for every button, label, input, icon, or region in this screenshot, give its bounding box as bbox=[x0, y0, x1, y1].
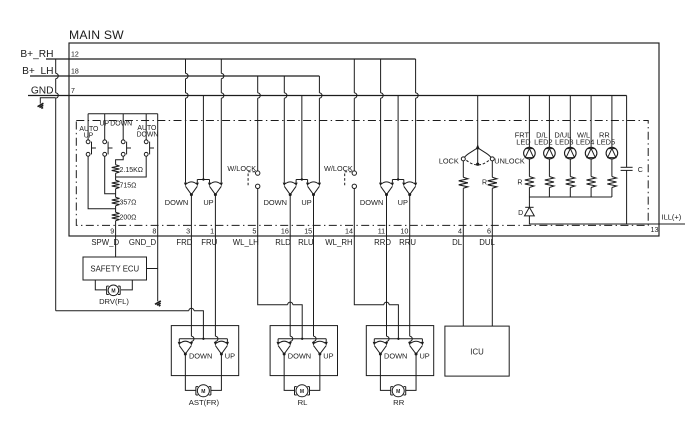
wire LED3 to bus bbox=[569, 188, 571, 198]
wire DL to ICU bbox=[462, 236, 464, 326]
diode D bbox=[525, 206, 533, 208]
main switch box outline bbox=[69, 43, 659, 236]
wire RR motor right bbox=[406, 354, 416, 390]
wire RR feed bar bbox=[374, 338, 422, 340]
wire RR down-input bbox=[387, 236, 390, 342]
rotary switch LOCK/UNLOCK bbox=[476, 144, 480, 149]
svg-text:WL_LH: WL_LH bbox=[233, 238, 259, 247]
svg-text:3: 3 bbox=[186, 226, 190, 235]
wire R1-R2 bbox=[115, 173, 117, 180]
wire AST(FR) up-input bbox=[215, 236, 218, 342]
wire RL outer-right feed bbox=[319, 76, 322, 183]
wire LED1 from GND bbox=[528, 96, 530, 148]
wire lock pivot from GND bbox=[477, 96, 479, 147]
wire S2 to R2/R3 junction bbox=[105, 156, 116, 194]
svg-text:RLD: RLD bbox=[275, 238, 291, 247]
motor RR bbox=[392, 385, 404, 397]
wire LED2 to bus bbox=[548, 188, 550, 198]
LED LED5 bbox=[606, 147, 618, 159]
svg-text:MAIN SW: MAIN SW bbox=[69, 28, 124, 42]
resistor 715 bbox=[112, 180, 120, 188]
wire LED2 to resistor bbox=[548, 159, 550, 177]
resistor 200 bbox=[112, 212, 120, 220]
driver unit right edge / GND_D wire (pin 8) bbox=[157, 114, 159, 236]
svg-text:RL: RL bbox=[298, 398, 309, 407]
resistor 2.15K bbox=[112, 165, 120, 173]
svg-text:8: 8 bbox=[152, 226, 156, 235]
driver UP contact RR bbox=[408, 342, 411, 346]
motor DRV(FL) bbox=[108, 285, 119, 296]
switch WL_RH W/LOCK contacts bbox=[352, 171, 356, 175]
wire WL_RH to RR block bbox=[354, 236, 398, 339]
svg-text:10: 10 bbox=[400, 226, 408, 235]
svg-text:DL: DL bbox=[452, 238, 463, 247]
svg-text:ILL(+): ILL(+) bbox=[662, 213, 682, 222]
wire AST(FR) feed bar bbox=[179, 338, 227, 340]
svg-text:D: D bbox=[518, 210, 523, 217]
svg-text:M: M bbox=[111, 288, 115, 294]
switch S2 UP wire from bus bbox=[104, 114, 106, 140]
wire S1 to R3/R4 junction bbox=[88, 156, 116, 209]
wire RL outer-left feed bbox=[284, 76, 287, 183]
driver DOWN contact RR bbox=[373, 342, 376, 346]
svg-text:DOWN: DOWN bbox=[264, 198, 287, 207]
wire FR outer-left feed bbox=[186, 59, 189, 183]
icu box bbox=[445, 326, 509, 376]
wire LED3 from GND bbox=[569, 96, 571, 148]
wire RLD output bbox=[289, 195, 291, 236]
switch WL_LH actuator dashes bbox=[248, 172, 255, 186]
wire WL_LH from bus bbox=[258, 76, 261, 171]
LED LED4 bbox=[585, 147, 597, 159]
wire ECU to GND_D bbox=[147, 268, 158, 270]
wire DUL upper bbox=[491, 161, 493, 177]
wire LED3 to resistor bbox=[569, 159, 571, 177]
wire FRD output bbox=[190, 195, 192, 236]
resistor LED5 bbox=[607, 177, 616, 188]
wire capacitor to ILL bbox=[626, 170, 628, 224]
svg-text:13: 13 bbox=[651, 225, 659, 234]
motor AST(FR) bbox=[197, 385, 209, 397]
svg-text:UP: UP bbox=[419, 351, 429, 360]
wire LED1 to resistor bbox=[528, 159, 530, 177]
wire RR outer-right feed bbox=[416, 59, 419, 183]
AST(FR) block box bbox=[171, 326, 238, 376]
wire SPW_D to SAFETY ECU bbox=[115, 236, 117, 257]
wire R2-R3 bbox=[115, 189, 117, 198]
RL block box bbox=[270, 326, 337, 376]
driver UP contact RL bbox=[312, 342, 315, 346]
wire ground branch bbox=[40, 98, 55, 104]
LED LED2 bbox=[544, 147, 556, 159]
wire S3 to ladder top bbox=[116, 156, 124, 165]
svg-text:DOWN: DOWN bbox=[165, 198, 188, 207]
wire DL to pin 4 bbox=[462, 188, 464, 236]
svg-text:LED: LED bbox=[516, 138, 530, 147]
wire left rail from B+_RH down bbox=[56, 59, 59, 311]
svg-text:UP: UP bbox=[301, 198, 311, 207]
LED LED bbox=[524, 147, 536, 159]
wire LED cathode bus bbox=[529, 196, 612, 198]
wire WL_RH from bus bbox=[354, 59, 357, 171]
resistor 357 bbox=[112, 197, 120, 205]
wire B+_RH bus (pin 12) bbox=[46, 58, 416, 60]
svg-text:DOWN: DOWN bbox=[110, 121, 132, 128]
svg-text:RR: RR bbox=[393, 398, 405, 407]
svg-text:RLU: RLU bbox=[298, 238, 314, 247]
svg-text:LED5: LED5 bbox=[597, 138, 616, 147]
switch WL_LH W/LOCK contacts bbox=[256, 171, 260, 175]
switch S1 AUTO UP wire from bus bbox=[87, 114, 89, 140]
svg-text:C: C bbox=[638, 167, 643, 174]
svg-text:FRD: FRD bbox=[176, 238, 192, 247]
resistor DUL R bbox=[488, 177, 497, 188]
resistor LED2 bbox=[545, 177, 554, 188]
wire RR outer-left feed bbox=[381, 59, 384, 183]
svg-text:DOWN: DOWN bbox=[360, 198, 383, 207]
wire RL motor left bbox=[284, 354, 294, 390]
LED LED3 bbox=[565, 147, 577, 159]
wire RL down-input bbox=[290, 236, 293, 342]
wire FRU output bbox=[214, 195, 216, 236]
driver DOWN contact RL bbox=[283, 183, 286, 187]
svg-text:GND: GND bbox=[31, 86, 54, 97]
RR block box bbox=[366, 326, 433, 376]
svg-text:UP: UP bbox=[323, 351, 333, 360]
wire WL_RH to pin bbox=[353, 189, 355, 237]
svg-text:357Ω: 357Ω bbox=[120, 199, 137, 206]
svg-text:LED4: LED4 bbox=[576, 138, 595, 147]
svg-text:7: 7 bbox=[71, 88, 75, 95]
svg-text:GND_D: GND_D bbox=[129, 238, 157, 247]
wire LED5 to resistor bbox=[611, 159, 613, 177]
svg-text:DOWN: DOWN bbox=[288, 351, 311, 360]
wire LED4 from GND bbox=[590, 96, 592, 148]
svg-text:715Ω: 715Ω bbox=[120, 183, 137, 190]
driver unit top bus bbox=[88, 113, 158, 115]
driver DOWN contact FR bbox=[184, 183, 187, 187]
driver DOWN contact AST(FR) bbox=[178, 342, 181, 346]
svg-text:M: M bbox=[201, 389, 205, 395]
wire SPW_D (pin 9) bbox=[115, 221, 117, 236]
svg-text:W/LOCK: W/LOCK bbox=[324, 164, 353, 173]
svg-text:12: 12 bbox=[71, 52, 79, 59]
safety ecu box bbox=[83, 257, 147, 280]
switch S4 AUTO DOWN contacts bbox=[144, 140, 148, 144]
svg-text:DOWN: DOWN bbox=[189, 351, 212, 360]
driver DOWN contact RL bbox=[277, 342, 280, 346]
switch S1 AUTO UP contacts bbox=[86, 140, 90, 144]
svg-text:16: 16 bbox=[281, 226, 289, 235]
wire GND_D down bbox=[157, 236, 159, 301]
wire RR up-input bbox=[410, 236, 413, 342]
motor RL bbox=[296, 385, 308, 397]
wire RLU output bbox=[313, 195, 315, 236]
wire LED5 to bus bbox=[611, 188, 613, 198]
wire FR outer-right feed bbox=[221, 59, 224, 183]
wire DUL to ICU bbox=[491, 236, 493, 326]
resistor LED3 bbox=[566, 177, 575, 188]
svg-text:M: M bbox=[396, 389, 400, 395]
svg-text:UP: UP bbox=[203, 198, 213, 207]
svg-text:B+_RH: B+_RH bbox=[20, 49, 53, 60]
resistor DL bbox=[459, 177, 468, 188]
svg-text:5: 5 bbox=[252, 226, 256, 235]
svg-text:LED2: LED2 bbox=[534, 138, 553, 147]
wire LED2 from GND bbox=[548, 96, 550, 148]
svg-text:LED3: LED3 bbox=[555, 138, 574, 147]
switch S4 AUTO DOWN wire from bus bbox=[145, 114, 147, 140]
svg-text:UP: UP bbox=[398, 198, 408, 207]
wire DUL to pin 6 bbox=[491, 188, 493, 236]
wire RR middle feed from GND bbox=[392, 96, 403, 183]
wire RL motor right bbox=[310, 354, 320, 390]
resistor LED4 bbox=[586, 177, 595, 188]
svg-text:UP: UP bbox=[225, 351, 235, 360]
svg-text:UP: UP bbox=[84, 132, 94, 139]
svg-text:DRV(FL): DRV(FL) bbox=[99, 297, 129, 306]
svg-text:RRD: RRD bbox=[374, 238, 391, 247]
switch S3 DOWN contacts bbox=[121, 140, 125, 144]
wire RL feed bar bbox=[278, 338, 326, 340]
svg-text:DOWN: DOWN bbox=[384, 351, 407, 360]
svg-text:WL_RH: WL_RH bbox=[325, 238, 352, 247]
driver UP contact FR bbox=[208, 183, 211, 187]
svg-text:18: 18 bbox=[71, 69, 79, 76]
wire AST(FR) down-input bbox=[191, 236, 194, 342]
ground symbol left bbox=[38, 103, 46, 109]
svg-text:M: M bbox=[300, 389, 304, 395]
wire WL_LH to pin bbox=[257, 189, 259, 237]
svg-text:R: R bbox=[482, 179, 487, 186]
wire AST(FR) motor left bbox=[185, 354, 195, 390]
svg-text:2.15KΩ: 2.15KΩ bbox=[120, 167, 144, 174]
wire RL middle feed from GND bbox=[296, 96, 308, 183]
svg-text:11: 11 bbox=[378, 226, 385, 235]
switch WL_RH actuator dashes bbox=[345, 172, 352, 186]
resistor LED1 bbox=[525, 177, 534, 188]
wire RR motor left bbox=[380, 354, 390, 390]
driver DOWN contact RR bbox=[379, 183, 382, 187]
wire ECU to DRV motor bbox=[95, 280, 132, 290]
wire DL upper bbox=[462, 161, 464, 177]
svg-text:DOWN: DOWN bbox=[137, 131, 159, 138]
svg-text:UP: UP bbox=[100, 121, 110, 128]
wire FR middle feed from GND bbox=[197, 96, 209, 183]
wire diode to ILL bbox=[529, 216, 685, 224]
wire LED5 from GND bbox=[611, 96, 613, 148]
svg-text:DUL: DUL bbox=[479, 238, 495, 247]
svg-text:B+_LH: B+_LH bbox=[22, 66, 53, 77]
svg-text:UNLOCK: UNLOCK bbox=[494, 156, 525, 165]
switch S3 DOWN wire from bus bbox=[122, 114, 124, 140]
wire bottom rail to AST block bbox=[56, 308, 204, 339]
switch S2 UP contacts bbox=[103, 140, 107, 144]
wire LED4 to bus bbox=[590, 188, 592, 198]
capacitor C bbox=[621, 166, 633, 168]
svg-text:AST(FR): AST(FR) bbox=[189, 398, 220, 407]
svg-text:1: 1 bbox=[210, 226, 214, 235]
wire WL_LH to RL block bbox=[258, 236, 303, 339]
svg-text:14: 14 bbox=[345, 226, 353, 235]
wire RL up-input bbox=[314, 236, 317, 342]
svg-text:SAFETY ECU: SAFETY ECU bbox=[90, 264, 139, 273]
wire RRD output bbox=[386, 195, 388, 236]
svg-text:R: R bbox=[517, 180, 522, 187]
wire GND bus (pin 7) bbox=[28, 95, 627, 97]
wire B+_LH bus (pin 18) bbox=[30, 75, 319, 77]
driver UP contact RR bbox=[402, 183, 405, 187]
svg-text:6: 6 bbox=[487, 226, 491, 235]
wire R3-R4 bbox=[115, 206, 117, 213]
svg-text:15: 15 bbox=[304, 226, 312, 235]
driver UP contact AST(FR) bbox=[214, 342, 217, 346]
svg-text:4: 4 bbox=[458, 226, 462, 235]
wire S4 to R1/R2 junction bbox=[116, 156, 147, 177]
wire AST(FR) motor right bbox=[211, 354, 221, 390]
wire bus to diode bbox=[528, 197, 530, 207]
wire RRU output bbox=[409, 195, 411, 236]
wire LED4 to resistor bbox=[590, 159, 592, 177]
svg-text:9: 9 bbox=[110, 226, 114, 235]
dash-dot internal boundary box bbox=[76, 121, 648, 226]
svg-text:LOCK: LOCK bbox=[439, 156, 459, 165]
wire LED1 to bus bbox=[528, 188, 530, 198]
wire capacitor from GND corner bbox=[626, 96, 628, 168]
svg-text:200Ω: 200Ω bbox=[120, 215, 137, 222]
svg-text:W/LOCK: W/LOCK bbox=[227, 164, 256, 173]
svg-text:RRU: RRU bbox=[399, 238, 416, 247]
svg-text:ICU: ICU bbox=[470, 348, 484, 357]
ground symbol GND_D bbox=[155, 301, 163, 307]
driver UP contact RL bbox=[306, 183, 309, 187]
